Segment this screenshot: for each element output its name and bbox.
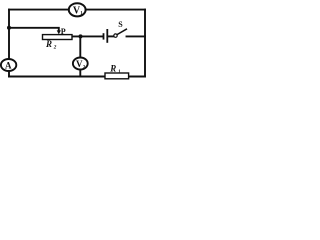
svg-text:R: R: [45, 39, 52, 49]
node junction middle branch: [79, 34, 83, 38]
wire middle branch left: [72, 35, 103, 37]
svg-text:A: A: [5, 60, 12, 70]
voltmeter V2: [73, 58, 88, 70]
node junction on left wire: [7, 26, 11, 30]
svg-text:2: 2: [53, 45, 57, 51]
wire switch to right: [127, 35, 146, 37]
voltmeter V1: [69, 3, 86, 16]
wire middle branch right: [109, 35, 114, 37]
switch S pivot: [114, 34, 117, 37]
slider arrow P: [57, 30, 61, 34]
svg-text:R: R: [109, 63, 116, 73]
wire voltmeter V2 branch: [79, 36, 81, 76]
wire bottom: [9, 76, 145, 78]
rheostat R2 box: [43, 35, 73, 40]
wire top: [9, 9, 145, 11]
ammeter A: [1, 59, 16, 71]
wire right: [144, 10, 146, 77]
svg-text:1: 1: [118, 69, 121, 75]
switch S lever: [117, 29, 127, 35]
svg-text:S: S: [118, 20, 123, 29]
resistor R1 box: [105, 73, 129, 79]
wire left: [8, 10, 10, 77]
battery cell: [103, 33, 105, 39]
wire slider branch: [9, 28, 59, 31]
